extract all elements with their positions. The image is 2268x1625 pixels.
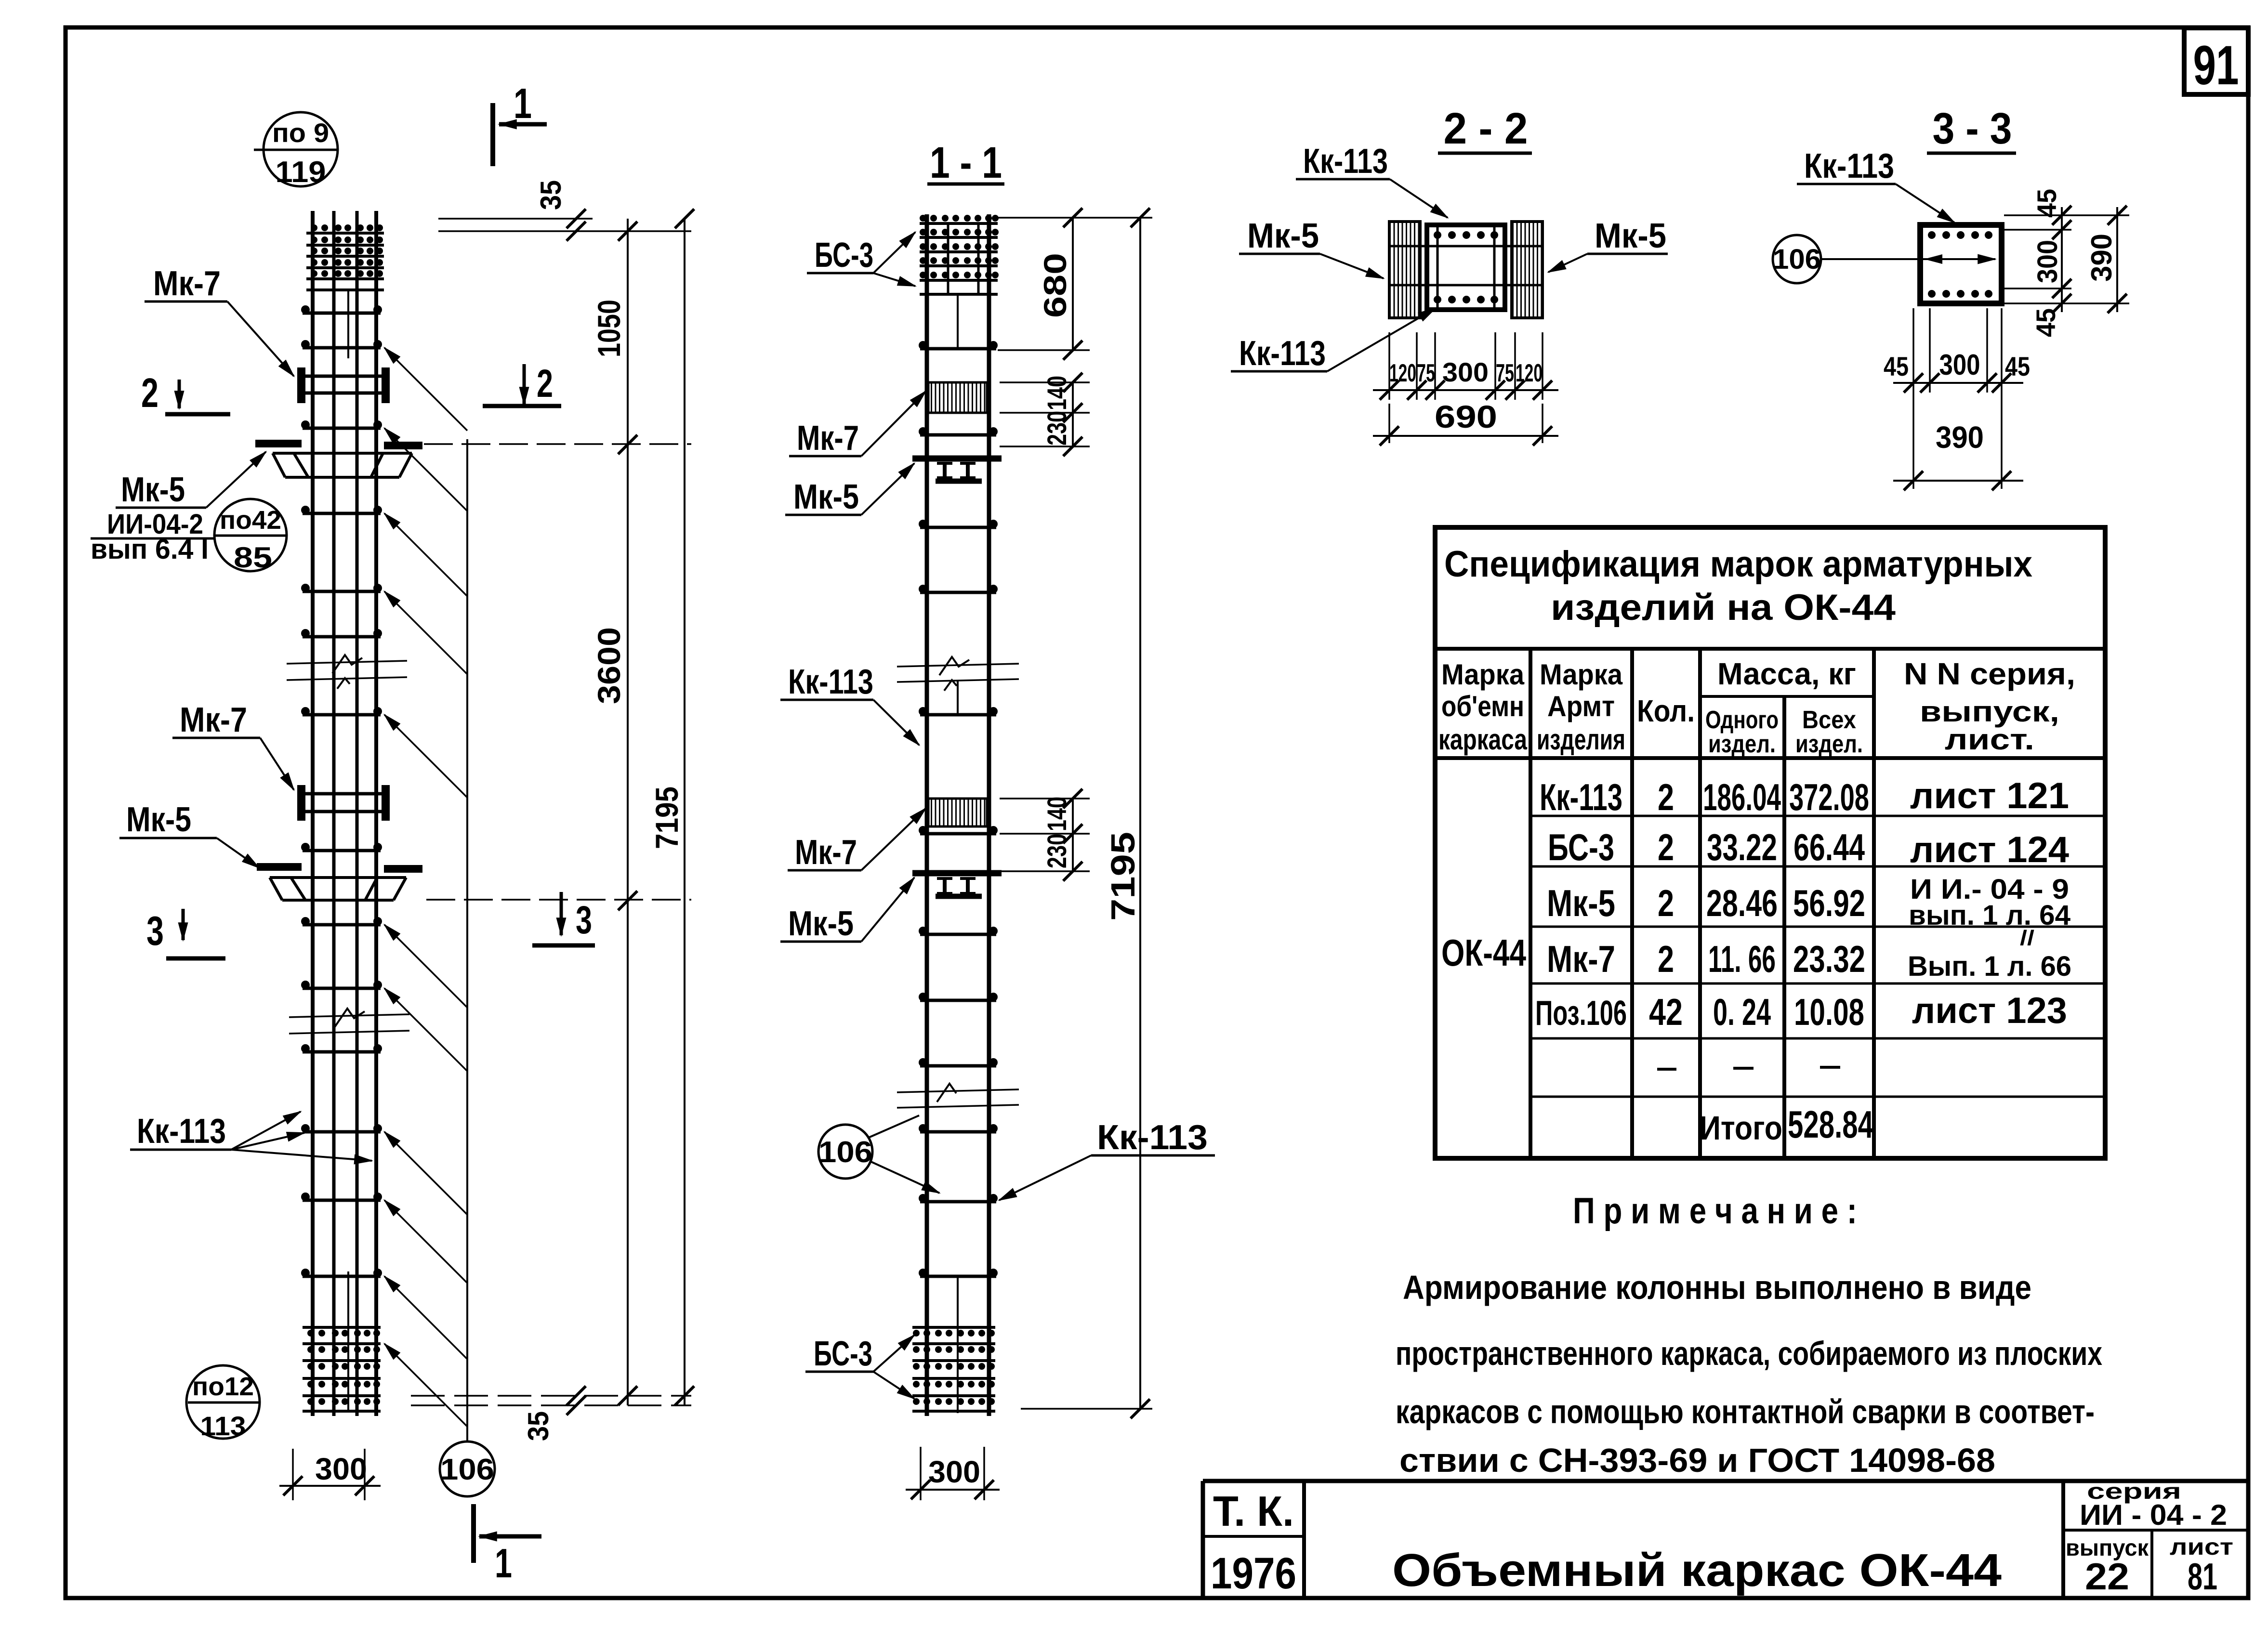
svg-text:390: 390 [1936,420,1984,455]
bottom extension lines / dim 35 [411,1386,691,1441]
svg-text:об'емн: об'емн [1441,690,1524,722]
svg-text:Мк-5: Мк-5 [1247,217,1319,255]
Mk-5 console 2 (1-1) [912,873,1002,896]
label Mk-5 with series ref (left view) [91,452,266,565]
svg-text:Кк-113: Кк-113 [1804,147,1894,185]
svg-text:528.84: 528.84 [1788,1103,1873,1146]
svg-text:Мк-7: Мк-7 [795,833,857,872]
svg-text:230: 230 [1042,411,1072,446]
svg-text:7195: 7195 [1104,832,1142,921]
svg-text:680: 680 [1037,253,1073,318]
svg-text:45: 45 [1884,351,1909,381]
dimension row 120/75/300/75/120 (2-2) [1373,332,1558,400]
title 1-1 [927,138,1004,187]
svg-text:3: 3 [146,908,164,954]
svg-text:300: 300 [1939,349,1980,381]
svg-text:Армт: Армт [1547,690,1615,722]
column dividers [1529,649,1532,1158]
section marker 2 (left) [141,370,230,416]
callout circle 106 (3-3) [1773,235,1995,283]
svg-text:45: 45 [2031,308,2061,337]
label Mk-5 1 (1-1) [785,463,914,516]
svg-text:66.44: 66.44 [1793,826,1865,868]
svg-text:БС-3: БС-3 [814,1335,872,1373]
pos.106 leader line and callout circle (left view) [440,439,495,1496]
svg-text:2: 2 [1658,938,1674,980]
svg-text:113: 113 [200,1411,246,1441]
svg-text:Поз.106: Поз.106 [1535,994,1627,1033]
label Kk-113 (3-3) [1797,147,1954,223]
svg-text:Масса, кг: Масса, кг [1717,656,1856,691]
svg-text:2 - 2: 2 - 2 [1444,104,1528,153]
section 1-1 column view group [780,138,1215,1500]
right-side dims 45/300/45 and 390 (3-3) [2004,189,2129,337]
section marker 3 (left) [146,908,225,958]
svg-text:Кк-113: Кк-113 [1540,776,1622,818]
svg-text:300: 300 [315,1452,367,1486]
dimension 7195 (1-1) [1021,208,1152,1418]
svg-text:каркаса: каркаса [1438,723,1527,756]
svg-text:вып 6.4 I: вып 6.4 I [91,534,209,565]
Mk-7 splice assembly 2 (left view) [297,785,390,821]
label Kk-113 (1-1) [780,663,919,745]
svg-text:372.08: 372.08 [1789,776,1869,818]
label Mk-7 (left view) [145,264,294,376]
stirrup square (3-3) [1920,225,2002,303]
svg-text:Мк-5: Мк-5 [121,471,185,509]
svg-text:3 - 3: 3 - 3 [1933,104,2012,153]
svg-text:Объемный каркас ОК-44: Объемный каркас ОК-44 [1392,1545,2002,1596]
section marker 1 (top) [493,79,547,166]
svg-text:85: 85 [234,541,272,574]
svg-text:230: 230 [1042,834,1072,868]
svg-text:119: 119 [276,156,326,189]
svg-text:Мк-5: Мк-5 [1595,217,1666,255]
svg-text:56.92: 56.92 [1793,882,1865,924]
callout circle po42/85 [214,499,287,574]
svg-text:лист 123: лист 123 [1912,990,2067,1031]
svg-text://: // [2020,926,2034,950]
stirrup ties (1-1) [919,341,998,1277]
callout circle 106 (1-1) [818,1115,939,1193]
callout circle po12 (left view bottom) [186,1365,260,1441]
svg-text:7195: 7195 [649,786,685,849]
svg-text:издел.: издел. [1708,730,1776,758]
svg-text:Мк-5: Мк-5 [788,904,854,943]
label Mk-5 left (2-2) [1239,217,1384,278]
label Kk-113 bottom right (1-1) [999,1118,1215,1200]
column bars (1-1) [927,214,989,1416]
series cells [2061,1481,2065,1598]
massa sub-header divider [1700,695,1874,698]
svg-text:2: 2 [1658,882,1674,924]
svg-text:ствии с СН-393-69 и ГОСТ: ствии с СН-393-69 и ГОСТ 14098-68 [1399,1442,1995,1479]
left column elevation group [91,79,694,1586]
section marker 3 (right) [532,892,595,945]
dimensions 140/230 lower (1-1) [1000,789,1090,881]
svg-text:каркасов с помощью контактн: каркасов с помощью контактной сварки в с… [1396,1393,2095,1430]
T.K. cell [1302,1481,1306,1598]
section 2-2 group [1231,104,1668,446]
label BS-3 bottom (1-1) [805,1335,914,1399]
label Mk-5 right (2-2) [1548,217,1668,272]
dimension line 7195 (left view) [649,209,694,1405]
Mk-5 hatched plate right (2-2) [1512,222,1543,318]
title 2-2 [1438,104,1532,153]
dimension 300 (1-1 bottom) [906,1447,1000,1500]
svg-text:Кол.: Кол. [1637,694,1695,728]
svg-text:изделия: изделия [1537,723,1625,756]
svg-text:Мк-7: Мк-7 [180,701,247,739]
center thin bar segments [347,289,349,358]
row 6 dashes [1657,1068,1676,1071]
svg-text:Вып. 1 л. 66: Вып. 1 л. 66 [1908,951,2071,982]
svg-text:Марка: Марка [1441,658,1525,691]
svg-text:2: 2 [1658,826,1674,868]
svg-text:пространственного каркаса, со: пространственного каркаса, собираемого и… [1396,1335,2102,1372]
svg-text:22: 22 [2085,1555,2129,1598]
svg-text:33.22: 33.22 [1707,826,1777,868]
svg-text:Т. К.: Т. К. [1213,1487,1294,1535]
table title band separator [1435,647,2105,651]
svg-text:БС-3: БС-3 [815,236,873,275]
break lines (1-1 lower) [897,1084,1019,1108]
tie leader fan (left view) [384,348,467,1427]
label Kk-113 bottom (2-2) [1231,308,1436,373]
Mk-5 console 2 (left view) [257,867,422,900]
svg-text:75: 75 [1496,359,1514,387]
svg-text:1050: 1050 [591,300,627,357]
svg-text:ИИ - 04 - 2: ИИ - 04 - 2 [2080,1499,2227,1531]
svg-text:45: 45 [2031,189,2062,218]
break lines (left view lower) [289,1009,409,1034]
svg-text:23.32: 23.32 [1793,938,1865,980]
svg-text:Итого: Итого [1700,1109,1782,1147]
table header bottom separator [1435,756,2105,760]
svg-text:вып. 1 л. 64: вып. 1 л. 64 [1909,900,2070,931]
dimension 300 (left bottom) [279,1449,381,1500]
callout circle po9/119 [254,112,339,189]
section marker 1 (bottom) [474,1504,541,1586]
svg-text:1 - 1: 1 - 1 [930,138,1002,187]
row separators [1530,815,2105,817]
svg-text:Кк-113: Кк-113 [1239,334,1326,373]
svg-text:106: 106 [818,1136,872,1169]
svg-text:по12: по12 [192,1372,254,1401]
svg-text:издел.: издел. [1795,730,1863,758]
Mk-5 hatched plate left (2-2) [1389,222,1420,318]
svg-text:ОК-44: ОК-44 [1441,931,1526,974]
svg-text:81: 81 [2188,1555,2217,1598]
extension line at Mk-5 level [424,443,691,445]
svg-text:10.08: 10.08 [1794,991,1864,1033]
svg-text:120: 120 [1389,359,1416,387]
column longitudinal bars (left view) [313,211,376,1416]
Mk-7 hatched splice block 2 (1-1) [928,799,987,826]
specification table [1435,527,2105,1158]
svg-text:3: 3 [576,898,592,942]
svg-text:1: 1 [495,1541,512,1586]
svg-text:300: 300 [928,1455,980,1489]
stirrup square (2-2) [1427,225,1505,310]
title block outline [1203,1479,2248,1483]
svg-text:Мк-5: Мк-5 [1547,882,1615,924]
svg-text:изделий на ОК-44: изделий на ОК-44 [1551,587,1896,628]
svg-text:42: 42 [1649,991,1683,1033]
title block [1203,1479,2248,1598]
svg-text:120: 120 [1516,359,1543,387]
svg-text:выпуск,: выпуск, [1920,695,2059,728]
Mk-5 console 1 (1-1) [912,459,1002,481]
svg-text:Мк-5: Мк-5 [126,800,191,839]
svg-text:Кк-113: Кк-113 [1303,142,1388,181]
svg-text:лист 121: лист 121 [1910,775,2069,816]
bottom mesh (left view) [303,1327,381,1411]
svg-text:45: 45 [2005,351,2030,381]
svg-text:Мк-5: Мк-5 [793,478,859,516]
svg-text:91: 91 [2193,35,2239,96]
label Kk-113 top (2-2) [1296,142,1448,218]
svg-text:35: 35 [535,180,567,210]
svg-text:28.46: 28.46 [1706,882,1778,924]
svg-text:300: 300 [2032,240,2063,283]
svg-text:по42: по42 [220,506,281,535]
svg-text:1: 1 [514,79,532,127]
dimensions 140/230 upper (1-1) [1000,373,1090,456]
label Kk-113 (left view) [130,1112,372,1161]
svg-text:35: 35 [522,1411,554,1441]
svg-text:Марка: Марка [1540,658,1623,691]
svg-text:Мк-7: Мк-7 [153,264,221,303]
extension line at Mk-5 second level [426,899,691,901]
bottom mesh BS-3 (1-1) [912,1327,995,1411]
section 3-3 group [1773,104,2129,490]
svg-text:0. 24: 0. 24 [1713,991,1771,1033]
title 3-3 [1927,104,2016,153]
dimension line 1050/3600 [591,219,637,1405]
dimension 680 (1-1) [998,208,1152,360]
connector bars (2-2) [1389,246,1543,285]
top mesh BS-3 (left view) [306,224,384,290]
svg-text:1976: 1976 [1211,1549,1296,1598]
svg-text:Кк-113: Кк-113 [788,663,873,701]
label Mk-5 second (left view) [119,800,259,868]
label Mk-7 second (left view) [172,701,294,790]
svg-text:П р и м е ч а н и е :: П р и м е ч а н и е : [1573,1191,1857,1232]
svg-text:2: 2 [537,362,553,406]
svg-text:390: 390 [2085,234,2118,282]
svg-text:лист.: лист. [1945,723,2034,756]
label Mk-7 2 (1-1) [788,808,926,872]
svg-text:N N серия,: N N серия, [1904,656,2075,691]
svg-text:3600: 3600 [591,627,627,704]
svg-text:Кк-113: Кк-113 [1097,1118,1208,1157]
svg-text:140: 140 [1042,376,1072,410]
break lines (1-1 upper) [897,657,1019,691]
section marker 2 (right) [483,362,561,406]
svg-text:по 9: по 9 [272,118,329,148]
dimension 690 (2-2) [1373,399,1558,446]
table outer border [1435,527,2105,1158]
svg-text:140: 140 [1042,797,1072,831]
Mk-7 splice assembly 1 (left view) [297,367,390,403]
svg-text:186.04: 186.04 [1703,776,1781,818]
notes block [1396,1191,2102,1479]
svg-text:Спецификация марок арматурны: Спецификация марок арматурных [1444,544,2032,585]
label Mk-5 2 (1-1) [780,878,914,943]
svg-text:Мк-7: Мк-7 [797,419,859,458]
top mesh BS-3 (1-1) [920,215,999,294]
stirrup ties pos.106 (left view) [301,305,382,1277]
sheet number box 91 [2184,28,2248,96]
bottom dims 45/300/45 and 390 (3-3) [1884,308,2030,490]
dimension 35 (top) [438,180,691,241]
svg-text:106: 106 [1773,244,1821,275]
label BS-3 top (1-1) [807,232,915,286]
Mk-7 hatched splice block 1 (1-1) [928,382,987,413]
svg-text:2: 2 [1658,776,1674,818]
break lines (left view upper) [287,655,407,689]
svg-text:690: 690 [1435,399,1497,434]
Mk-5 console 1 (left view) [255,444,422,477]
svg-text:75: 75 [1417,359,1435,387]
svg-text:Армирование колонны выполнен: Армирование колонны выполнено в виде [1403,1269,2031,1306]
svg-text:106: 106 [440,1453,494,1486]
svg-text:Мк-7: Мк-7 [1547,938,1615,980]
svg-text:БС-3: БС-3 [1548,826,1614,868]
svg-text:2: 2 [141,370,158,416]
svg-text:Кк-113: Кк-113 [137,1112,226,1151]
svg-text:лист 124: лист 124 [1910,829,2069,870]
svg-text:11. 66: 11. 66 [1708,938,1776,980]
svg-text:300: 300 [1442,357,1489,387]
label Mk-7 1 (1-1) [789,391,926,458]
